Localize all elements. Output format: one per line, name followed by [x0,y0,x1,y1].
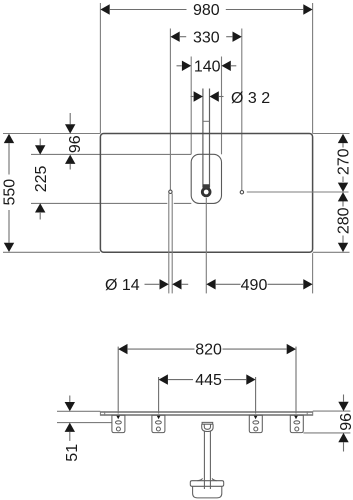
hole left diameter 14 [169,190,172,193]
bracket arrow B4 [294,415,299,420]
bracket B1 [112,415,125,432]
extension line top edge left [3,133,100,135]
extension line / pipe right edge [209,89,211,188]
svg-text:820: 820 [195,342,222,359]
extension line slab top front right [313,410,351,412]
svg-text:280: 280 [335,207,352,234]
svg-text:490: 490 [241,277,268,294]
dimension 96 front (arrows outside) [343,395,345,452]
countertop front view top line [100,411,312,413]
svg-text:330: 330 [193,29,220,46]
extension line 330 right (down to hole) [241,29,243,191]
extension line right bottom [313,251,350,253]
svg-text:550: 550 [2,179,19,206]
extension line 980 right [312,3,314,134]
svg-text:445: 445 [195,372,222,389]
dimension 330 [180,36,232,38]
bracket arrow B1 [116,415,121,420]
dimension 140 (arrows outside) [177,65,237,67]
slab outline (countertop top view) [100,134,312,253]
svg-text:Ø 3 2: Ø 3 2 [231,90,270,107]
dimension diameter 32 (arrows outside) [191,96,224,98]
bracket arrow B2 [156,415,161,420]
extension line bottom edge left [3,251,100,253]
extension line bracket bottom right [304,432,351,434]
svg-text:51: 51 [64,444,81,462]
svg-text:Ø 14: Ø 14 [105,277,140,294]
countertop front left end cap [99,411,101,415]
bracket B2 [152,415,165,432]
pipe crossbar [203,120,210,122]
countertop front view bottom line [100,414,312,416]
dimension 280 [342,201,344,243]
svg-text:96: 96 [67,135,84,153]
extension line 980 left [99,3,101,134]
extension line 140 left [190,57,192,155]
bracket arrow B3 [253,415,258,420]
extension line recess bottom left [31,202,167,204]
svg-text:270: 270 [335,148,352,175]
extension line recess top left [31,153,191,155]
svg-text:96: 96 [338,413,353,431]
dimension 225 (arrows outside) [39,139,41,220]
extension line 330 left (down to hole) [169,29,171,191]
dimension 820 [118,347,296,414]
dimension 445 [159,377,256,414]
dimension 51 (arrows outside) [69,396,71,441]
siphon trap cup [190,478,223,498]
dimension 550 [8,143,10,243]
svg-text:225: 225 [33,165,50,192]
svg-text:980: 980 [193,2,220,19]
extension line faucet centerline down [205,198,207,294]
extension line 140 right [221,57,223,155]
extension line right middle (holes level) [247,191,349,193]
dimension diameter 14 (arrows outside) [145,283,160,285]
extension line hole diameter 14 left [168,193,170,293]
faucet ring [202,188,210,196]
drain pipe [204,432,210,490]
bracket B4 [290,415,303,432]
hole right [240,191,243,194]
drain connector below countertop [202,422,213,431]
dimension 980 [110,9,303,11]
extension line right top [313,133,350,135]
bracket B3 [249,415,262,432]
extension line slot level left [57,422,112,424]
extension line slab top front left [57,410,100,412]
dimension 490 [216,283,303,285]
dimension 96 (arrows outside) [69,113,71,170]
extension line / pipe left edge [202,89,204,188]
extension line slab right edge down [312,253,314,293]
dimension 270 [342,143,344,182]
faucet ring tab [203,184,210,188]
countertop front right end cap [312,411,314,415]
svg-text:140: 140 [194,58,221,75]
recess rounded rectangle [191,154,221,203]
extension line hole diameter 14 right [171,193,173,293]
